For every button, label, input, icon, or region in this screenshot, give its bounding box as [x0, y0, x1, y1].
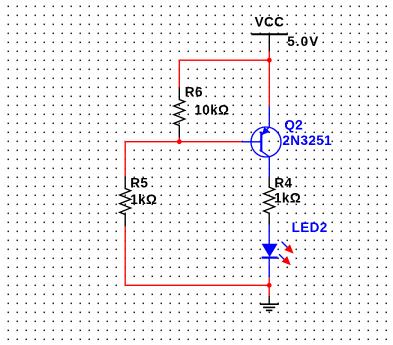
wire VCC node to R6 top (horizontal) [179, 59, 269, 62]
svg-text:1kΩ: 1kΩ [274, 190, 301, 205]
label R6 [185, 85, 203, 100]
ground [260, 296, 279, 311]
svg-text:1kΩ: 1kΩ [130, 192, 157, 207]
junction at VCC node [267, 58, 272, 63]
svg-text:R5: R5 [130, 175, 148, 190]
svg-text:R4: R4 [274, 175, 292, 190]
junction base node [177, 139, 182, 144]
resistor R4 [264, 178, 275, 225]
resistor R6 [174, 88, 185, 138]
svg-text:5.0V: 5.0V [287, 34, 319, 49]
svg-text:Q2: Q2 [284, 118, 303, 133]
junction ground node [267, 283, 272, 288]
power symbol VCC [251, 15, 287, 51]
net label 5.0V [287, 34, 319, 49]
svg-text:VCC: VCC [255, 15, 285, 30]
wire LED to ground node [268, 278, 270, 286]
label Q2 [284, 118, 303, 133]
wire R5 bottom to ground rail [124, 227, 126, 286]
wire base node to Q2 base [179, 140, 241, 143]
value 2N3251 [282, 133, 332, 148]
label LED2 [292, 220, 328, 235]
resistor R5 [120, 177, 131, 227]
wire down to R6 top [178, 60, 180, 87]
label R5 [130, 175, 148, 190]
value 10kΩ [194, 103, 229, 118]
wire bottom rail (horizontal) [125, 284, 269, 287]
svg-text:10kΩ: 10kΩ [194, 103, 229, 118]
value 1kΩ (R5) [130, 192, 157, 207]
value 1kΩ (R4) [274, 190, 301, 205]
svg-text:LED2: LED2 [292, 220, 328, 235]
wire ground node to ground symbol [268, 285, 270, 296]
label R4 [274, 175, 292, 190]
wire R6 bottom to base node [178, 138, 180, 142]
wire base node to R5 (horizontal left) [125, 140, 179, 143]
wire down to R5 top [124, 142, 126, 177]
transistor Q2 (PNP 2N3251) [242, 106, 281, 178]
wire VCC to emitter (vertical) [268, 51, 270, 106]
svg-text:2N3251: 2N3251 [282, 133, 332, 148]
LED LED2 [262, 225, 294, 278]
svg-text:R6: R6 [185, 85, 203, 100]
